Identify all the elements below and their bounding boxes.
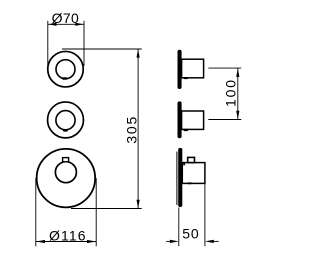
svg-text:50: 50 [182,225,199,241]
dimension D70 extension line left [47,21,49,66]
dimension 305 arrow down [137,200,140,209]
dimension 100 arrow up [236,68,239,77]
knob 1 indicator tick [62,77,67,80]
side view unit 3 rosette plate [178,148,182,207]
dimension 100 line [237,68,239,119]
side view unit 2 body [182,111,204,129]
knob 3 inner circle [55,162,76,183]
side view unit 2 tick [184,129,189,131]
dimension D116 extension line right [95,178,97,246]
dimension D70 extension line right [83,21,85,66]
dimension 50 arrow right [205,240,214,243]
knob 2 indicator tick [63,129,68,132]
side view unit 3 tick bottom [187,182,192,184]
side view unit 2 rosette plate [178,101,182,138]
dimension 305 top extension line [62,48,142,50]
side view unit 1 body [182,59,204,78]
dimension 50 tail left [166,240,171,242]
dimension 305 arrow up [137,49,140,58]
dimension 100 bottom extension line [208,119,241,121]
dimension D70 arrow right [75,23,84,26]
dimension D116 arrow left [36,240,45,243]
dimension D116 arrow right [87,240,96,243]
knob 1 outer circle (front view top) [48,51,84,87]
side view unit 3 tick top-left [183,163,185,166]
dimension D116 line [36,241,96,243]
dimension 50 arrow left [170,240,179,243]
dimension 100 arrow down [236,111,239,120]
dimension 50 extension line right [204,184,206,246]
side view unit 1 rosette plate [178,50,182,89]
dimension 100 top extension line [208,67,241,69]
knob 2 inner circle [56,111,75,130]
dimension D70 arrow left [48,23,57,26]
knob 2 outer circle (front view middle) [48,102,84,138]
dimension D116 extension line left [35,178,37,246]
knob 3 top notch [63,158,69,162]
knob 1 inner circle [56,60,75,79]
side view unit 1 tick [184,77,188,79]
side view unit 3 wall line [176,152,178,206]
dimension 305 bottom extension line [71,208,142,210]
dimension D70 line [48,23,84,25]
dimension 50 extension line left [178,208,180,247]
side view unit 3 body [182,163,205,184]
svg-text:Ø116: Ø116 [49,227,87,243]
side view unit 3 top bump [188,157,195,162]
svg-text:Ø70: Ø70 [52,10,80,26]
svg-text:305: 305 [124,115,140,144]
svg-text:100: 100 [223,78,239,107]
dimension 50 tail right [213,240,219,242]
knob 3 outer circle (front view large) [37,149,96,208]
dimension 305 line [137,49,139,209]
